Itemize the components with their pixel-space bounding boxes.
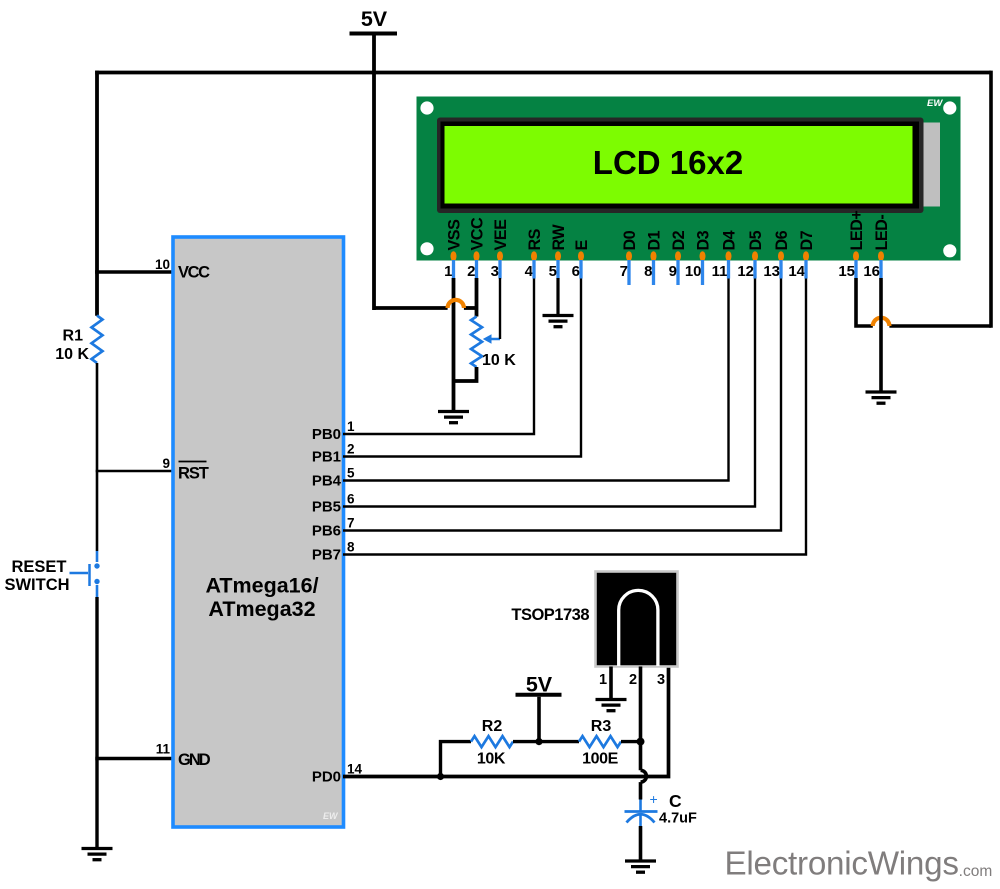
wire stub LCD pin 2 bbox=[475, 260, 478, 279]
svg-text:EW: EW bbox=[927, 98, 943, 109]
svg-text:EW: EW bbox=[323, 811, 339, 821]
wire PB0 to LCD bbox=[343, 278, 534, 434]
wire TSOP pin1 to ground bbox=[609, 667, 613, 699]
wire PD0 to TSOP pin 3 bbox=[343, 667, 669, 777]
svg-text:14: 14 bbox=[347, 762, 363, 777]
wire stub LCD pin 6 bbox=[579, 260, 582, 279]
svg-text:10K: 10K bbox=[477, 751, 506, 768]
svg-text:VCC: VCC bbox=[469, 217, 487, 250]
svg-text:16: 16 bbox=[863, 263, 880, 280]
ground (left rail) bbox=[82, 849, 113, 860]
svg-text:10 K: 10 K bbox=[482, 352, 516, 369]
5V supply symbol (sensor) bbox=[516, 673, 562, 697]
wire R2 left lead + drop to PD0 bbox=[441, 742, 472, 777]
svg-text:D5: D5 bbox=[747, 230, 765, 250]
svg-text:VSS: VSS bbox=[446, 219, 464, 251]
svg-text:R3: R3 bbox=[591, 718, 612, 735]
LCD contrast strip (gray) bbox=[921, 123, 940, 207]
junction (5V / R2-R3 bus) bbox=[535, 738, 542, 745]
push button RESET SWITCH bbox=[70, 551, 100, 597]
wire right 5V rail vertical (to LED+) bbox=[989, 71, 993, 328]
svg-text:8: 8 bbox=[347, 540, 355, 555]
svg-text:C: C bbox=[669, 791, 682, 811]
junction (R2 lead / PD0 wire) bbox=[437, 773, 444, 780]
svg-text:TSOP1738: TSOP1738 bbox=[511, 606, 589, 624]
wire R3 to TSOP pin2 node bbox=[621, 740, 641, 743]
svg-text:100E: 100E bbox=[582, 751, 618, 768]
wire hop (5V over VSS line) bbox=[448, 300, 464, 308]
wire PB6 to LCD bbox=[343, 278, 781, 531]
wire top 5V rail horizontal bbox=[95, 71, 991, 75]
ground (VSS) bbox=[438, 412, 469, 423]
IC U1 ATmega16/ATmega32 bbox=[173, 237, 344, 827]
wire PB1 to LCD bbox=[343, 278, 581, 457]
IR receiver TSOP1738 bbox=[596, 572, 678, 667]
svg-text:LED+: LED+ bbox=[848, 211, 866, 251]
potentiometer 10K (contrast) bbox=[471, 317, 482, 368]
svg-text:3: 3 bbox=[657, 672, 665, 688]
wire PB5 to LCD bbox=[343, 278, 755, 507]
svg-text:6: 6 bbox=[347, 492, 355, 507]
wire stub LCD pin 11 bbox=[727, 260, 730, 279]
wire stub LCD pin 14 bbox=[804, 260, 807, 279]
LCD pad pin 8 bbox=[651, 251, 657, 261]
LCD pad pin 3 bbox=[497, 251, 503, 261]
svg-text:5: 5 bbox=[347, 466, 355, 481]
wire capacitor to ground bbox=[639, 826, 643, 860]
svg-text:D4: D4 bbox=[721, 230, 739, 250]
svg-text:5: 5 bbox=[549, 263, 557, 280]
svg-text:3: 3 bbox=[491, 263, 499, 280]
ground (TSOP pin1) bbox=[596, 700, 627, 711]
svg-text:5V: 5V bbox=[361, 7, 388, 31]
capacitor C 4.7uF bbox=[625, 800, 658, 827]
svg-text:10: 10 bbox=[155, 257, 170, 272]
LCD pad pin 7 bbox=[626, 251, 632, 261]
svg-text:5V: 5V bbox=[526, 673, 553, 697]
svg-text:RST: RST bbox=[178, 465, 209, 483]
wire 5V to pot top (with hop) bbox=[374, 306, 448, 310]
wire stub LCD pin 15 bbox=[854, 260, 857, 279]
svg-text:+: + bbox=[650, 791, 658, 807]
svg-text:E: E bbox=[573, 240, 591, 251]
LCD mounting holes bbox=[420, 101, 956, 257]
wire LCD pin2 VCC down to pot bbox=[475, 278, 479, 317]
svg-text:D7: D7 bbox=[798, 230, 816, 250]
svg-text:PB6: PB6 bbox=[312, 523, 341, 540]
svg-text:GND: GND bbox=[178, 751, 211, 769]
LCD pad pin 13 bbox=[778, 251, 784, 261]
svg-text:ATmega16/: ATmega16/ bbox=[205, 574, 318, 598]
svg-text:RS: RS bbox=[526, 228, 544, 250]
wire PB4 to LCD bbox=[343, 278, 729, 481]
LCD pad pin 10 bbox=[700, 251, 706, 261]
ground (LED-) bbox=[866, 392, 897, 403]
svg-text:13: 13 bbox=[763, 263, 780, 280]
svg-text:7: 7 bbox=[347, 516, 355, 531]
svg-text:11: 11 bbox=[712, 263, 728, 280]
wire hop (LED+ over LED- line) bbox=[873, 318, 890, 326]
svg-text:11: 11 bbox=[156, 742, 171, 757]
svg-text:VCC: VCC bbox=[178, 264, 210, 282]
wire pot bottom to VSS/ground bbox=[454, 367, 477, 381]
LCD pad pin 6 bbox=[578, 251, 584, 261]
svg-text:1: 1 bbox=[347, 419, 355, 434]
LCD pad pin 15 bbox=[853, 251, 859, 261]
svg-text:1: 1 bbox=[444, 263, 452, 280]
svg-text:PD0: PD0 bbox=[312, 769, 341, 786]
wire R2 to R3 bbox=[513, 740, 579, 743]
wire PB7 to LCD bbox=[343, 278, 806, 555]
svg-text:9: 9 bbox=[162, 456, 170, 471]
svg-text:9: 9 bbox=[669, 263, 677, 280]
LCD bezel bbox=[437, 118, 924, 214]
svg-text:RW: RW bbox=[550, 224, 568, 251]
wire GND to MCU pin 11 bbox=[95, 757, 173, 760]
svg-text:SWITCH: SWITCH bbox=[4, 576, 69, 594]
LCD module 16x2 (PCB) bbox=[417, 97, 961, 261]
svg-text:VEE: VEE bbox=[492, 219, 510, 251]
resistor R3 bbox=[579, 736, 621, 747]
wire switch to ground bbox=[95, 597, 98, 847]
svg-text:15: 15 bbox=[838, 263, 855, 280]
wire stub LCD pin 1 bbox=[452, 260, 455, 279]
LCD pad pin 2 bbox=[474, 251, 480, 261]
pot wiper arrow (from VEE) bbox=[483, 334, 500, 343]
svg-text:4: 4 bbox=[525, 263, 534, 280]
svg-text:PB5: PB5 bbox=[312, 499, 341, 516]
svg-text:LED-: LED- bbox=[873, 215, 891, 251]
svg-text:ATmega32: ATmega32 bbox=[208, 597, 315, 621]
wire 5V to R2/R3 node bbox=[537, 697, 541, 742]
svg-text:LCD 16x2: LCD 16x2 bbox=[593, 144, 743, 181]
svg-text:2: 2 bbox=[467, 263, 475, 280]
wire stub LCD pin 8 bbox=[652, 260, 655, 285]
wire RST to MCU pin 9 bbox=[96, 470, 173, 473]
svg-text:D0: D0 bbox=[621, 230, 639, 250]
svg-text:PB4: PB4 bbox=[312, 473, 342, 490]
svg-text:D6: D6 bbox=[773, 230, 791, 250]
svg-text:2: 2 bbox=[347, 442, 355, 457]
LCD screen bbox=[445, 126, 913, 204]
wire stub LCD pin 13 bbox=[779, 260, 782, 279]
svg-text:10 K: 10 K bbox=[55, 346, 89, 363]
wire stub LCD pin 16 bbox=[879, 260, 882, 279]
wire LCD pin5 RW to ground bbox=[556, 278, 559, 314]
wire stub LCD pin 12 bbox=[753, 260, 756, 279]
wire LCD pin3 VEE to wiper bbox=[499, 278, 501, 339]
wire stub LCD pin 10 bbox=[701, 260, 704, 285]
LCD pad pin 11 bbox=[726, 251, 732, 261]
svg-text:4.7uF: 4.7uF bbox=[659, 811, 697, 827]
LCD pad pin 4 bbox=[531, 251, 537, 261]
svg-text:RESET: RESET bbox=[11, 558, 66, 576]
wire stub LCD pin 7 bbox=[627, 260, 630, 285]
svg-text:D1: D1 bbox=[646, 230, 664, 250]
LCD pad pin 16 bbox=[878, 251, 884, 261]
ground (RW) bbox=[543, 316, 574, 327]
wire LCD pin1 VSS to ground bbox=[452, 278, 456, 410]
wire stub LCD pin 9 bbox=[676, 260, 679, 285]
svg-text:7: 7 bbox=[620, 263, 628, 280]
wire LED- pin16 to ground bbox=[879, 278, 883, 391]
resistor R1 bbox=[92, 316, 103, 364]
wire VCC to MCU pin 10 bbox=[95, 270, 173, 274]
wire R1 bottom to reset node / switch bbox=[96, 363, 99, 551]
pin RST (with overline) bbox=[178, 462, 209, 483]
label RESET SWITCH bbox=[4, 558, 69, 594]
svg-text:PB1: PB1 bbox=[312, 449, 341, 466]
wire stub LCD pin 4 bbox=[532, 260, 535, 279]
LCD pad pin 14 bbox=[803, 251, 809, 261]
LCD pad pin 5 bbox=[555, 251, 561, 261]
5V supply symbol (main) bbox=[350, 7, 398, 34]
svg-text:8: 8 bbox=[644, 263, 652, 280]
svg-text:D3: D3 bbox=[695, 230, 713, 250]
svg-text:14: 14 bbox=[788, 263, 805, 280]
wire 5V vertical drop to contrast network bbox=[372, 36, 376, 311]
svg-text:PB0: PB0 bbox=[312, 426, 341, 443]
svg-text:R1: R1 bbox=[63, 328, 84, 345]
svg-text:6: 6 bbox=[572, 263, 580, 280]
LCD pad pin 1 bbox=[451, 251, 457, 261]
svg-text:D2: D2 bbox=[670, 230, 688, 250]
wire TSOP pin2 to capacitor bbox=[639, 782, 643, 799]
svg-text:12: 12 bbox=[737, 263, 754, 280]
svg-text:PB7: PB7 bbox=[312, 547, 341, 564]
wire TSOP pin2 down (with hop over PD0) bbox=[639, 667, 643, 771]
wire hop (pin2 over PD0 wire) bbox=[641, 770, 647, 782]
wire stub LCD pin 5 bbox=[556, 260, 559, 279]
LCD pad pin 9 bbox=[675, 251, 681, 261]
svg-text:R2: R2 bbox=[482, 718, 503, 735]
LCD pad pin 12 bbox=[752, 251, 758, 261]
resistor R2 bbox=[471, 736, 513, 747]
ground (capacitor) bbox=[625, 861, 656, 872]
junction (R3 / TSOP pin2) bbox=[637, 738, 645, 746]
svg-text:10: 10 bbox=[685, 263, 702, 280]
wire left rail vertical (top, 5V to R1) bbox=[95, 71, 99, 316]
wire LED+ pin15 to 5V rail (with hop) bbox=[856, 278, 873, 326]
svg-text:2: 2 bbox=[629, 672, 637, 688]
svg-text:ElectronicWings.com: ElectronicWings.com bbox=[725, 846, 993, 883]
label ATmega16/ATmega32 bbox=[205, 574, 318, 622]
wire stub LCD pin 3 bbox=[498, 260, 501, 279]
svg-text:1: 1 bbox=[599, 672, 607, 688]
